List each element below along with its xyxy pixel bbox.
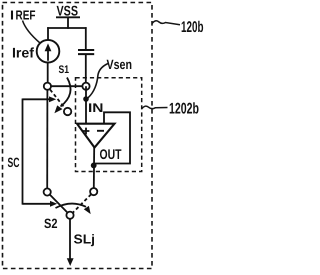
minus sign [97, 130, 104, 132]
output junction dot [91, 163, 97, 169]
svg-text:S2: S2 [44, 216, 58, 231]
wire current source to S1 left node [47, 62, 49, 83]
switch S2 left node [44, 188, 51, 195]
svg-text:OUT: OUT [100, 146, 122, 162]
SC control loop top line [23, 98, 50, 100]
S1 rotation arc with arrow [61, 78, 71, 107]
capacitor plates [78, 49, 94, 51]
svg-text:SLj: SLj [74, 231, 96, 246]
VSS underline [56, 16, 80, 18]
svg-text:S1: S1 [59, 64, 70, 76]
leader line to 1202b [142, 106, 168, 109]
wire node to op-amp plus input [85, 86, 87, 124]
svg-text:IN: IN [88, 101, 104, 115]
current source arrow [47, 50, 49, 61]
SC top arrowhead [49, 96, 56, 102]
op-amp triangle U1 [77, 124, 115, 148]
S1 arm end contact circle [64, 108, 71, 115]
output wire SL_j with arrow [69, 219, 71, 259]
leader line IREF to current source [23, 21, 41, 44]
wire rail to current source [47, 27, 49, 40]
S1 right node [82, 83, 89, 90]
SC bottom line [23, 203, 51, 205]
svg-text:1202b: 1202b [169, 101, 199, 118]
S2 rotation arc with arrow [56, 204, 87, 208]
S2 solid arm [50, 195, 68, 213]
svg-text:I: I [10, 7, 14, 22]
outer dashed box 120b [3, 3, 153, 269]
svg-text:Iref: Iref [12, 45, 34, 61]
svg-text:REF: REF [16, 7, 36, 22]
plus sign [83, 128, 90, 135]
S2 dashed arm [73, 194, 91, 213]
output wire [93, 147, 95, 188]
S1 left node [44, 83, 51, 90]
S1 dashed arm [50, 90, 65, 108]
wire capacitor to S1 right node [85, 55, 87, 83]
SC bottom arrowhead [50, 201, 57, 207]
svg-text:SC: SC [8, 155, 20, 170]
top rail wire [47, 27, 86, 29]
main left wire S1 to S2 [46, 90, 48, 189]
feedback loop wire [94, 112, 130, 163]
junction dot on Vsen node [83, 96, 89, 102]
current source Iref circle [37, 40, 60, 63]
switch S2 right node [90, 188, 97, 195]
switch S1 wire between nodes [47, 85, 86, 87]
SC vertical wire [22, 99, 24, 205]
svg-text:Vsen: Vsen [107, 57, 133, 72]
svg-text:VSS: VSS [57, 3, 79, 19]
wire rail to capacitor [85, 27, 87, 49]
svg-text:120b: 120b [181, 19, 204, 36]
leader line to 120b [152, 21, 180, 25]
inner dashed box 1202b [76, 78, 142, 172]
VSS stem wire [67, 18, 69, 29]
switch S2 center node [66, 212, 73, 219]
leader line Vsen to junction dot [88, 64, 108, 98]
